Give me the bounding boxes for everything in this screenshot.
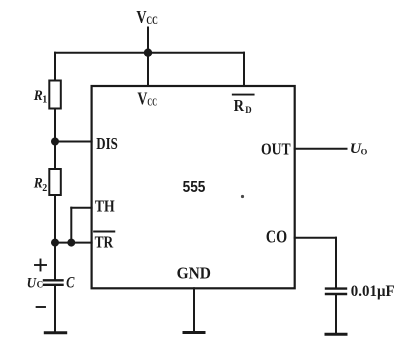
wire TR pin horizontal xyxy=(55,242,92,244)
svg-text:DIS: DIS xyxy=(96,134,118,153)
pin label TR (active low) with overline xyxy=(94,232,114,252)
wire Vcc stub vertical xyxy=(147,28,149,53)
wire DIS pin xyxy=(55,141,92,143)
node junction TR left xyxy=(51,239,59,247)
svg-text:2: 2 xyxy=(42,183,47,194)
svg-text:U: U xyxy=(27,275,37,291)
svg-text:CC: CC xyxy=(147,97,157,109)
node junction TH tap xyxy=(67,239,75,247)
svg-text:TR: TR xyxy=(95,232,114,251)
label R1 xyxy=(33,88,47,105)
svg-text:V: V xyxy=(137,88,147,108)
label UC xyxy=(27,275,43,291)
IC U1 555 timer box xyxy=(92,86,295,288)
label UO xyxy=(350,141,368,157)
svg-text:R: R xyxy=(234,96,245,115)
svg-text:O: O xyxy=(361,147,368,157)
node junction Vcc rail xyxy=(144,49,152,57)
wire Vcc pin drop into box xyxy=(147,53,149,86)
wire capacitor to ground right xyxy=(335,295,337,333)
wire RD pin drop into box xyxy=(243,53,245,86)
ground center xyxy=(184,331,204,334)
wire top rail horizontal xyxy=(55,52,244,54)
label - polarity xyxy=(37,306,45,308)
wire CO pin horizontal xyxy=(295,237,336,239)
wire R1 bottom to R2 top xyxy=(54,109,56,170)
pin label RD (active low) with overline xyxy=(233,95,254,116)
ground left xyxy=(45,331,65,334)
capacitor 0.01uF plates xyxy=(326,289,346,294)
label + polarity xyxy=(35,260,46,271)
svg-text:GND: GND xyxy=(177,264,211,283)
wire CO vertical to capacitor xyxy=(335,238,337,288)
svg-text:555: 555 xyxy=(183,179,206,196)
svg-text:OUT: OUT xyxy=(261,140,291,159)
resistor R2 xyxy=(49,169,61,195)
wire left rail from top rail to R1 xyxy=(54,53,56,81)
svg-text:CC: CC xyxy=(146,15,157,27)
svg-text:CO: CO xyxy=(266,227,287,247)
wire R2 bottom down to capacitor xyxy=(54,195,56,279)
speck artifact xyxy=(241,195,244,198)
svg-text:D: D xyxy=(245,105,251,116)
svg-text:1: 1 xyxy=(42,94,47,105)
wire GND pin to ground xyxy=(193,288,195,331)
svg-text:C: C xyxy=(66,275,75,292)
wire OUT pin xyxy=(295,148,347,150)
svg-text:C: C xyxy=(37,280,44,290)
label R2 xyxy=(33,176,47,194)
svg-text:V: V xyxy=(136,7,146,27)
ground right xyxy=(326,333,346,336)
wire capacitor bottom to ground xyxy=(54,286,56,332)
pin label VCC inside box xyxy=(137,88,157,108)
svg-text:0.01μF: 0.01μF xyxy=(351,283,395,300)
resistor R1 xyxy=(49,81,61,109)
svg-text:TH: TH xyxy=(95,197,115,216)
wire TH pin horizontal xyxy=(71,207,91,209)
node junction DIS xyxy=(51,138,59,146)
wire TH vertical xyxy=(70,208,72,243)
capacitor C plates xyxy=(44,280,63,285)
power VCC supply label xyxy=(136,7,157,27)
